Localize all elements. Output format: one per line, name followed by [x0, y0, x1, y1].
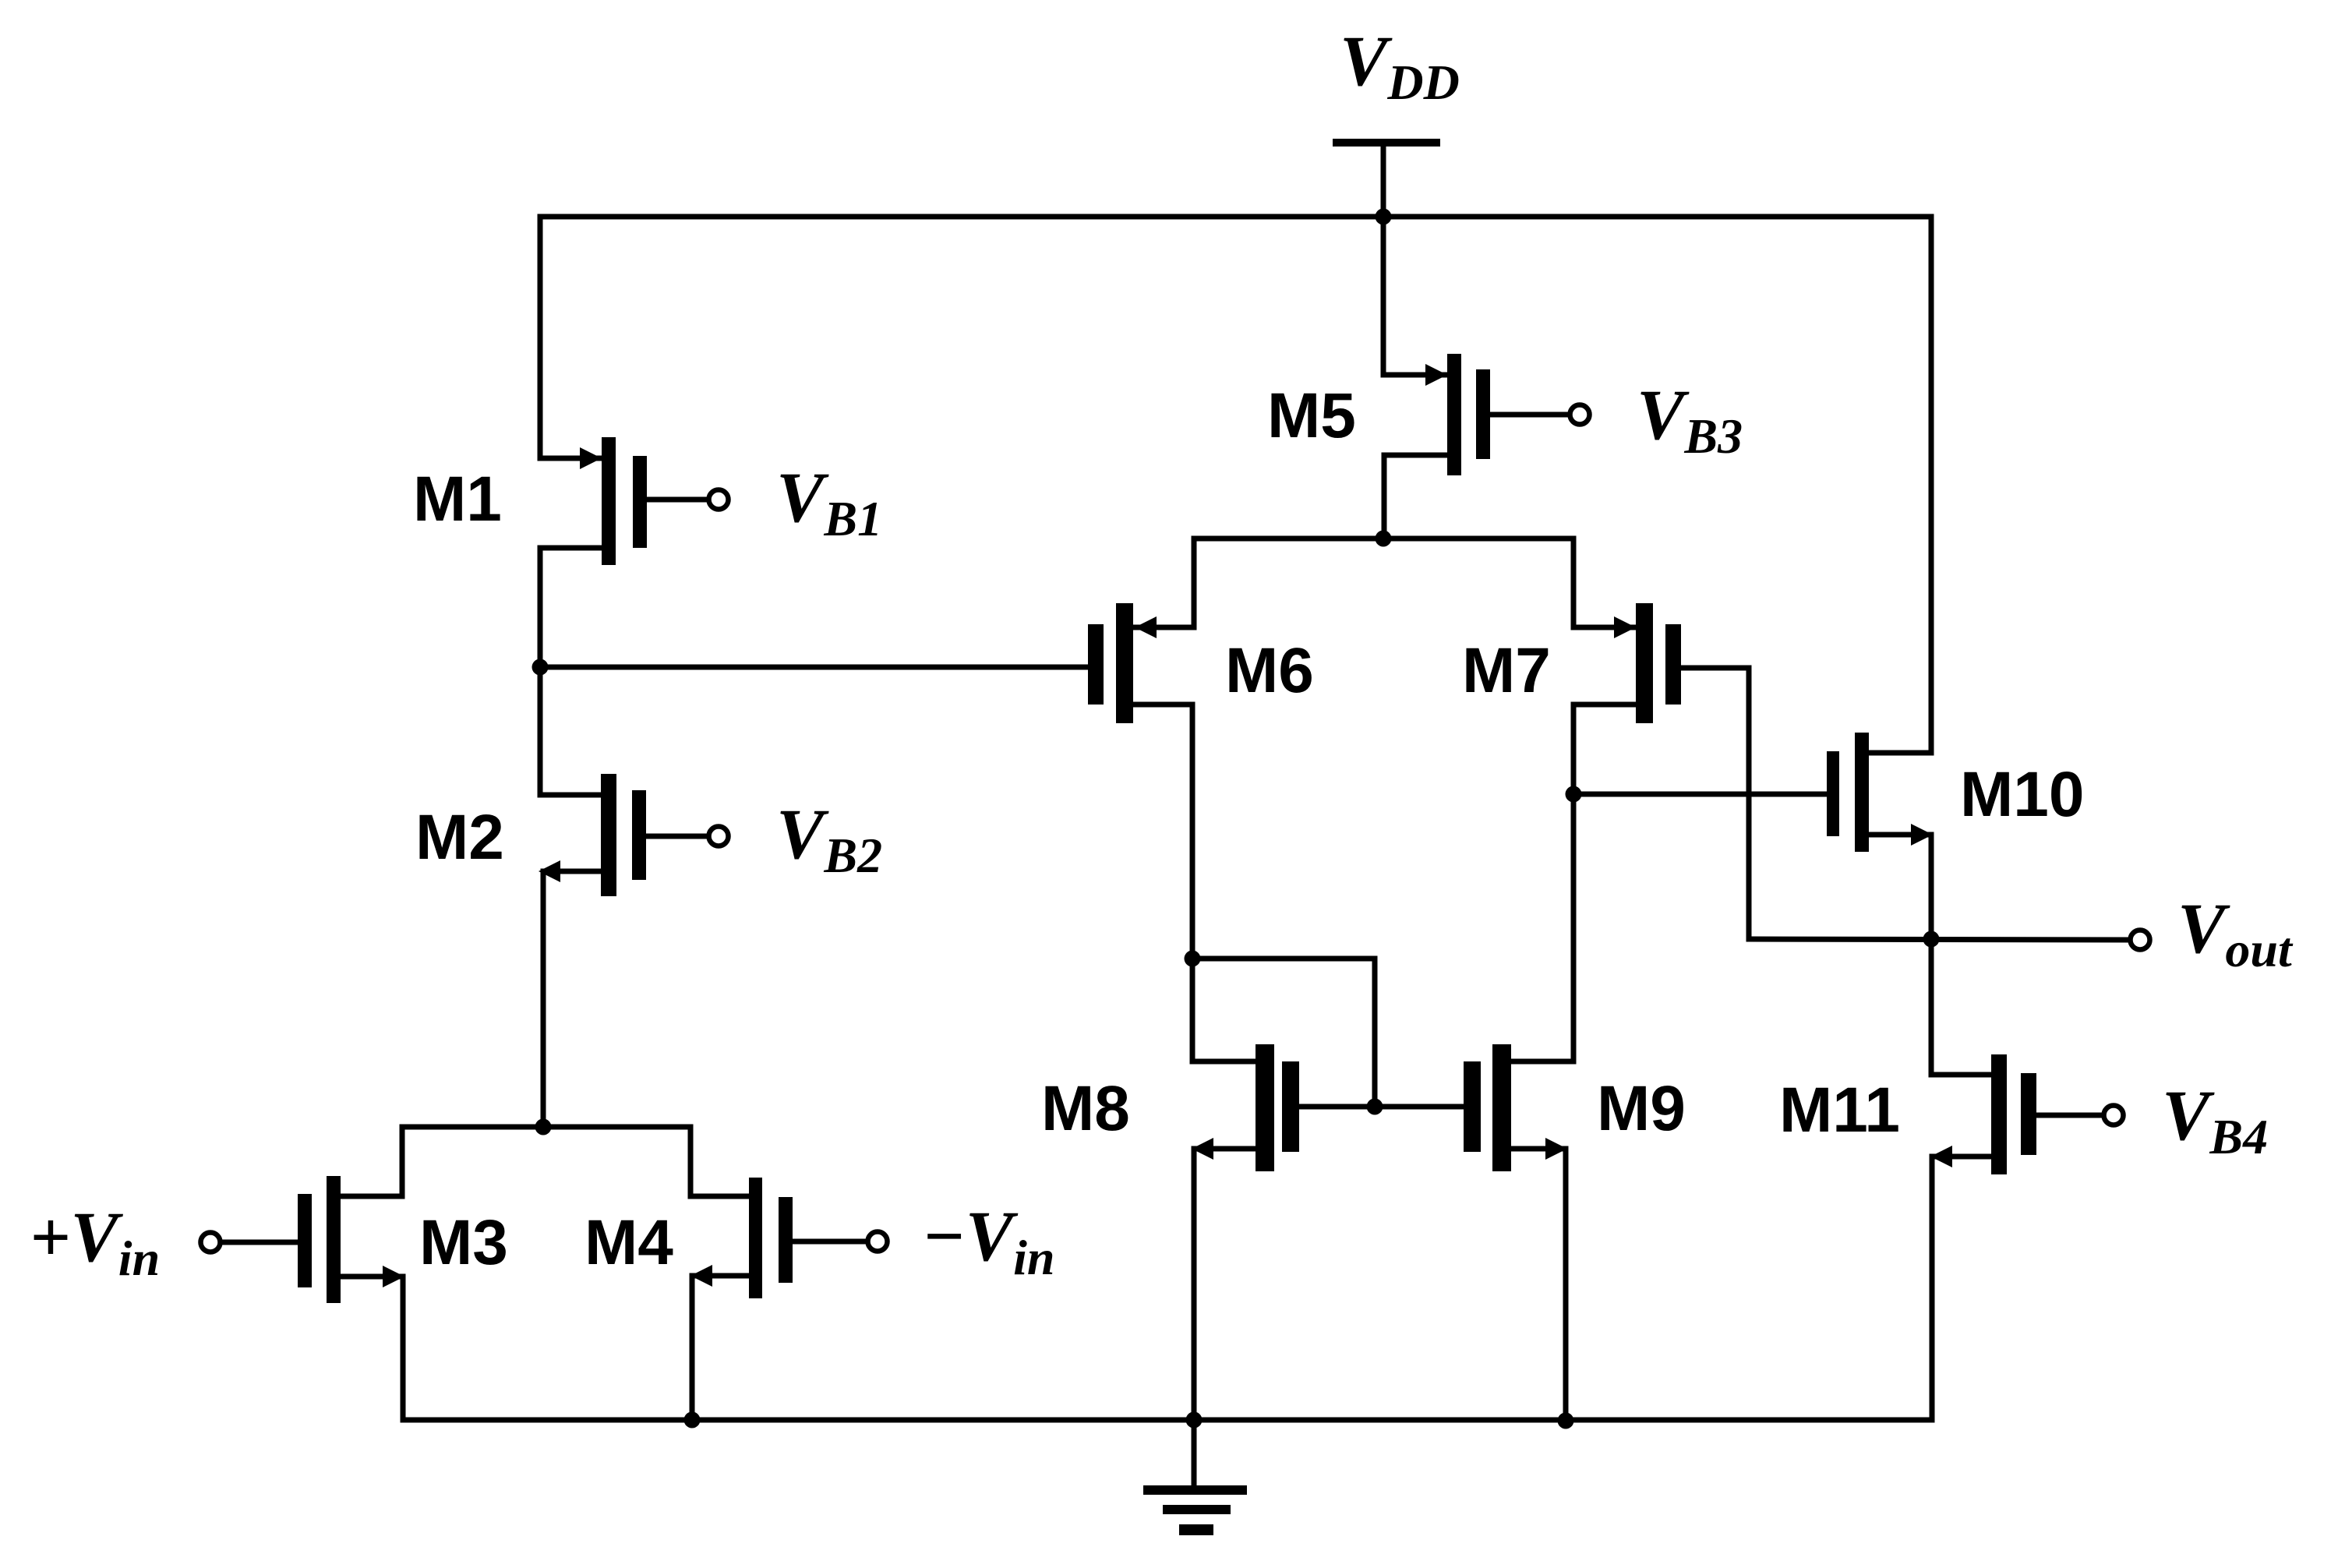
svg-text:M3: M3	[419, 1207, 508, 1278]
svg-text:M10: M10	[1960, 759, 2085, 830]
svg-text:M9: M9	[1597, 1073, 1686, 1144]
svg-text:M4: M4	[584, 1207, 673, 1278]
svg-text:M6: M6	[1225, 635, 1314, 706]
svg-text:M5: M5	[1267, 380, 1356, 451]
svg-text:M8: M8	[1041, 1073, 1130, 1144]
svg-text:M7: M7	[1462, 635, 1551, 706]
svg-text:M2: M2	[415, 802, 504, 873]
svg-text:M1: M1	[413, 464, 502, 535]
svg-text:M11: M11	[1779, 1075, 1900, 1146]
